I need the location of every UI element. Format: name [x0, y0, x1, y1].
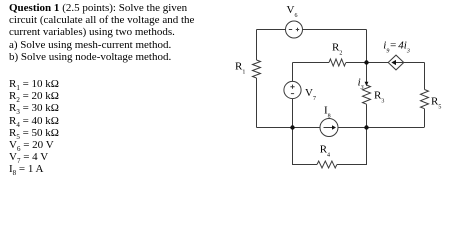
- wire R3 branch upper with current arrow: [366, 63, 368, 84]
- junction node at R3 top: [364, 60, 368, 64]
- svg-text:i9=4i3: i9=4i3: [383, 39, 410, 54]
- question text paragraph: [9, 2, 194, 63]
- wire V7 branch lower: [292, 99, 294, 128]
- label R3: [374, 90, 384, 105]
- resistor R1: [253, 60, 261, 78]
- wire V7 branch upper: [292, 63, 294, 82]
- label V6: [287, 4, 298, 19]
- wire R3 branch lower: [366, 104, 368, 127]
- wire R5 branch lower: [424, 109, 426, 128]
- label i3: [358, 76, 364, 91]
- wire corner down to node at R3 top: [366, 30, 368, 63]
- component values list: [9, 78, 59, 176]
- resistor R4: [317, 161, 337, 168]
- wire middle from R2 to dependent source: [346, 62, 388, 64]
- current arrow i3: [365, 82, 369, 86]
- resistor R2: [329, 59, 346, 66]
- wire left branch lower: [256, 78, 258, 128]
- wire top from V6 to right corner: [303, 29, 367, 31]
- current source I8: [320, 119, 338, 137]
- svg-text:i3: i3: [358, 76, 364, 91]
- svg-text:V7: V7: [305, 87, 316, 102]
- wire left branch upper: [256, 30, 258, 61]
- label R5: [431, 95, 441, 110]
- svg-text:R2: R2: [332, 41, 342, 56]
- svg-text:R3: R3: [374, 90, 384, 105]
- junction node at V7 bottom: [290, 125, 294, 129]
- voltage source V7: [284, 81, 301, 98]
- label i9 = 4i3: [383, 39, 410, 54]
- wire R5 branch upper: [424, 63, 426, 90]
- svg-text:V6: V6: [287, 4, 298, 19]
- label R2: [332, 41, 342, 56]
- label I8: [324, 104, 331, 119]
- svg-text:R4: R4: [320, 143, 330, 158]
- junction node at R3 bottom: [364, 125, 368, 129]
- wire bottom from left corner to I8: [257, 127, 321, 129]
- svg-text:R5: R5: [431, 95, 441, 110]
- wire bottom loop right: [337, 128, 367, 165]
- resistor R3: [363, 85, 371, 104]
- wire bottom from I8 to R5 branch: [338, 127, 424, 129]
- wire top-left from R1 branch to V6: [257, 29, 286, 31]
- svg-text:R1: R1: [235, 60, 245, 75]
- label R1: [235, 60, 245, 75]
- dependent current source I9 (diamond): [388, 55, 404, 70]
- wire middle from diamond to right corner: [404, 62, 425, 64]
- voltage source V6: [286, 21, 303, 38]
- wire bottom loop left: [293, 128, 318, 165]
- label V7: [305, 87, 316, 102]
- label R4: [320, 143, 330, 158]
- wire middle from V7 branch to R2: [293, 62, 330, 64]
- resistor R5: [421, 90, 429, 109]
- svg-text:I8: I8: [324, 104, 331, 119]
